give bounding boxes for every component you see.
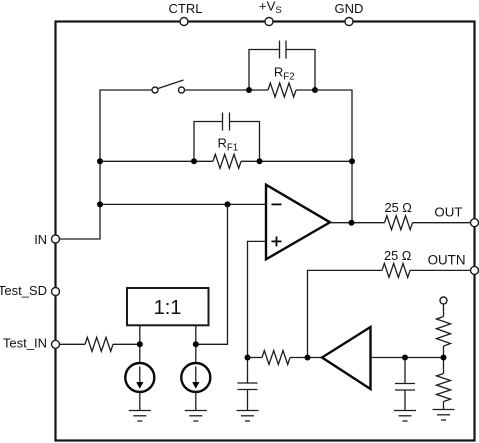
- wire RF2 to output column: [315, 90, 352, 223]
- node RF1 left: [191, 158, 197, 164]
- resistor R5 upper: [437, 317, 451, 347]
- wire to OUTN pin: [410, 269, 471, 271]
- node buffer chain left: [245, 355, 251, 361]
- wire OUTN row: [308, 270, 383, 357]
- node RF1 right: [257, 158, 263, 164]
- svg-text:IN: IN: [34, 232, 47, 247]
- wire R6 to ground: [443, 402, 445, 410]
- transformer 1:1 box: [127, 288, 209, 325]
- current source I2: [181, 363, 210, 392]
- svg-text:OUT: OUT: [434, 204, 462, 219]
- ground I2: [185, 411, 207, 422]
- pin CTRL: [169, 1, 203, 26]
- resistor Test_IN: [60, 337, 140, 351]
- wire RF1 to output column: [260, 160, 353, 162]
- wire IN to inverting-input column: [60, 90, 153, 239]
- pin Test_SD: [0, 283, 60, 298]
- wire terminal to R5: [443, 304, 445, 317]
- svg-text:Test_SD: Test_SD: [0, 283, 47, 298]
- svg-text:OUTN: OUTN: [428, 253, 466, 268]
- svg-text:1:1: 1:1: [154, 297, 182, 319]
- node RF2 left: [246, 87, 252, 93]
- node op-amp output: [349, 220, 355, 226]
- node divider tap: [441, 355, 447, 361]
- node test current tap: [225, 201, 231, 207]
- wire op-amp output: [330, 222, 385, 224]
- capacitor CF2 branch: [249, 41, 315, 91]
- pin IN: [34, 232, 59, 247]
- ground C1: [237, 411, 259, 422]
- svg-text:CTRL: CTRL: [169, 1, 203, 16]
- pin OUTN: [428, 253, 479, 275]
- capacitor C1: [238, 383, 258, 411]
- pin Test_IN: [3, 336, 60, 351]
- wire non-inverting input: [248, 241, 267, 383]
- ground R6: [433, 410, 455, 421]
- svg-text:25 Ω: 25 Ω: [384, 248, 412, 263]
- resistor 25ohm OUTN: [382, 248, 412, 277]
- capacitor C2: [395, 358, 415, 411]
- wire buffer right side: [371, 357, 444, 359]
- resistor RF2: [249, 65, 315, 98]
- node test right: [193, 341, 199, 347]
- op-amp U1: [266, 185, 330, 260]
- svg-text:GND: GND: [335, 1, 364, 16]
- wire I2 to ground: [195, 392, 197, 411]
- wire RF1 row: [100, 160, 194, 162]
- node test left: [137, 341, 143, 347]
- pin OUT: [434, 204, 478, 226]
- svg-text:25 Ω: 25 Ω: [385, 200, 413, 215]
- wire inverting input: [100, 203, 266, 205]
- resistor 25ohm OUT: [385, 200, 413, 230]
- wire box right leg: [195, 325, 197, 363]
- node inverting column: [97, 201, 103, 207]
- wire test mirror to inverting input: [196, 204, 228, 344]
- node RF1 line left: [97, 158, 103, 164]
- pin GND: [335, 1, 364, 26]
- switch S1: [152, 80, 185, 93]
- capacitor CF1 branch: [194, 113, 260, 162]
- resistor RF1: [194, 136, 260, 169]
- resistor buffer input: [248, 351, 323, 365]
- node C2: [402, 355, 408, 361]
- ground C2: [394, 411, 416, 422]
- wire R5 to R6: [443, 346, 445, 374]
- node RF1 output column: [349, 158, 355, 164]
- current source I1: [125, 363, 154, 392]
- node RF2 right: [312, 87, 318, 93]
- buffer amp U2: [322, 327, 371, 389]
- terminal bias top: [440, 297, 447, 304]
- node buffer input: [305, 355, 311, 361]
- resistor R6 lower: [437, 374, 451, 402]
- ground I1: [129, 411, 151, 422]
- wire switch to RF2 node: [184, 89, 249, 91]
- wire box left leg: [139, 325, 141, 363]
- wire to OUT pin: [413, 222, 471, 224]
- wire I1 to ground: [139, 392, 141, 411]
- svg-text:Test_IN: Test_IN: [3, 336, 47, 351]
- pin +VS: [259, 0, 282, 26]
